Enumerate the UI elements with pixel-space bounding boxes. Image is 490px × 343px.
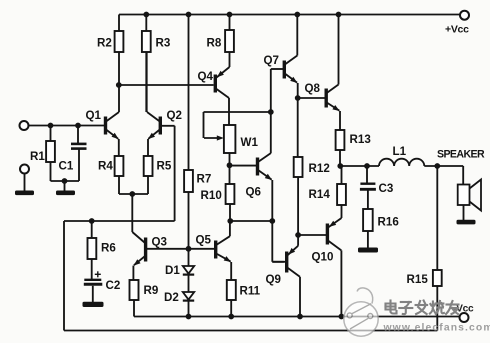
svg-text:Q4: Q4 [198, 70, 214, 83]
svg-text:C2: C2 [106, 279, 121, 292]
svg-text:W1: W1 [241, 136, 259, 149]
svg-text:Q1: Q1 [86, 109, 102, 122]
potentiometer W1 [204, 112, 271, 153]
wire feedback left drop [63, 221, 65, 331]
node input C1 tap [75, 123, 81, 129]
node R10 bottom [227, 218, 233, 224]
resistor R4 [98, 156, 123, 194]
transistor Q5 [196, 221, 232, 280]
svg-text:Q5: Q5 [196, 234, 212, 247]
svg-text:R6: R6 [101, 242, 116, 255]
svg-text:R1: R1 [30, 150, 45, 163]
resistor R14 [309, 166, 346, 218]
svg-text:Q3: Q3 [152, 236, 168, 249]
resistor R12 [294, 98, 330, 235]
resistor R3 [142, 15, 171, 113]
svg-text:R13: R13 [350, 133, 372, 146]
svg-text:R11: R11 [240, 285, 261, 298]
resistor R11 [227, 280, 261, 317]
transistor Q9 [266, 235, 301, 317]
resistor R13 [336, 130, 372, 166]
node R12 bottom driver [295, 232, 301, 238]
svg-text:C3: C3 [379, 182, 394, 195]
node bottom rail D2 tap [186, 314, 192, 320]
resistor R6 [88, 221, 117, 279]
node Q6 emitter tap [269, 218, 275, 224]
wire feedback bottom line [64, 330, 437, 332]
wire W1 to R10 [229, 153, 231, 184]
resistor R7 [184, 15, 211, 267]
transistor Q2 [147, 52, 182, 221]
watermark elecfans logo and text [344, 288, 490, 336]
svg-text:R16: R16 [378, 216, 400, 229]
resistor R15 [407, 166, 442, 331]
transistor Q6 [230, 69, 284, 262]
resistor R2 [97, 15, 123, 86]
speaker SPEAKER [437, 149, 485, 225]
svg-text:C1: C1 [59, 160, 74, 173]
wire -Vcc bottom rail [134, 316, 460, 318]
wire +Vcc top rail [119, 14, 460, 16]
node W1 bottom [227, 162, 233, 168]
svg-text:+Vcc: +Vcc [445, 24, 469, 36]
resistor R5 [144, 156, 172, 194]
node top rail R7 tap [186, 12, 192, 18]
node top rail R8 tap [227, 12, 233, 18]
transistor Q1 [86, 85, 120, 156]
transistor Q4 [198, 67, 230, 125]
capacitor C1 [59, 126, 87, 182]
wire input line [28, 125, 104, 127]
node diff tail [129, 191, 135, 197]
node top rail Q8 tap [336, 12, 342, 18]
wire feedback mid line [64, 220, 175, 222]
node top rail Q7 tap [294, 12, 300, 18]
resistor R10 [201, 184, 235, 221]
terminal input upper [20, 121, 29, 130]
node output R13-R14 [337, 163, 343, 169]
node R6 tap [89, 218, 95, 224]
svg-text:R14: R14 [309, 188, 331, 201]
ground C2 [83, 302, 104, 307]
node R1-C1 ground tap [62, 178, 68, 184]
svg-text:R15: R15 [407, 273, 429, 286]
svg-text:SPEAKER: SPEAKER [437, 149, 485, 161]
node W1 wiper to Q7 base [268, 109, 274, 115]
terminal +Vcc [445, 11, 469, 36]
resistor R8 [207, 15, 234, 68]
svg-text:Q7: Q7 [264, 54, 279, 67]
svg-text:D2: D2 [164, 291, 179, 304]
node bottom rail R11 tap [228, 314, 234, 320]
node input R1 tap [48, 123, 54, 129]
transistor Q3 [132, 232, 215, 280]
ground R1/C1 [56, 181, 75, 195]
svg-text:Q8: Q8 [305, 82, 321, 95]
wire tail to Q3 collector [131, 194, 133, 232]
transistor Q8 [305, 15, 341, 131]
node bottom rail Q9 tap [297, 314, 303, 320]
node R2-Q1 collector junction [116, 82, 122, 88]
svg-text:D1: D1 [165, 264, 180, 277]
terminal input lower [20, 165, 29, 174]
resistor R1 [30, 126, 55, 182]
node top rail R3 tap [143, 12, 149, 18]
node C3 tap [364, 163, 370, 169]
svg-text:Q2: Q2 [167, 109, 182, 122]
wire Q4 base line [119, 84, 214, 86]
svg-text:R3: R3 [156, 37, 171, 50]
svg-text:R7: R7 [197, 173, 212, 186]
node bias chain base tap [186, 246, 192, 252]
ground input lower [15, 173, 34, 195]
svg-text:R12: R12 [309, 162, 330, 175]
terminal -Vcc [453, 304, 474, 323]
transistor Q7 [264, 15, 298, 99]
svg-text:R8: R8 [207, 37, 222, 50]
svg-text:www.elecfans.com: www.elecfans.com [383, 323, 490, 334]
resistor R16 [363, 209, 399, 248]
svg-text:L1: L1 [393, 145, 407, 158]
capacitor C2 [84, 271, 121, 302]
svg-text:R10: R10 [201, 189, 222, 202]
svg-text:R4: R4 [98, 160, 113, 173]
svg-text:R2: R2 [97, 37, 112, 50]
svg-text:R5: R5 [157, 160, 172, 173]
capacitor C3 [360, 166, 394, 209]
svg-text:Q6: Q6 [246, 186, 262, 199]
wire R1-C1 bottom tie [51, 180, 80, 182]
resistor R9 [130, 280, 159, 317]
node Q7 emitter [295, 95, 301, 101]
diode D2 [164, 291, 194, 317]
ground R16 [358, 248, 378, 253]
node speaker tap [434, 163, 440, 169]
svg-text:R9: R9 [144, 284, 159, 297]
inductor L1 [379, 145, 424, 166]
wire Q7 emitter to Q8 base [298, 97, 326, 99]
wire R4-R5 emitter tie [119, 193, 148, 195]
wire output line left [340, 165, 379, 167]
node bottom rail Q10 tap [339, 314, 345, 320]
transistor Q10 [298, 218, 341, 317]
svg-text:Q10: Q10 [312, 251, 334, 264]
wire R10 to Q9 base line [230, 220, 272, 222]
wire output line right [424, 165, 463, 167]
svg-text:Q9: Q9 [266, 273, 282, 286]
diode D1 [165, 264, 194, 292]
